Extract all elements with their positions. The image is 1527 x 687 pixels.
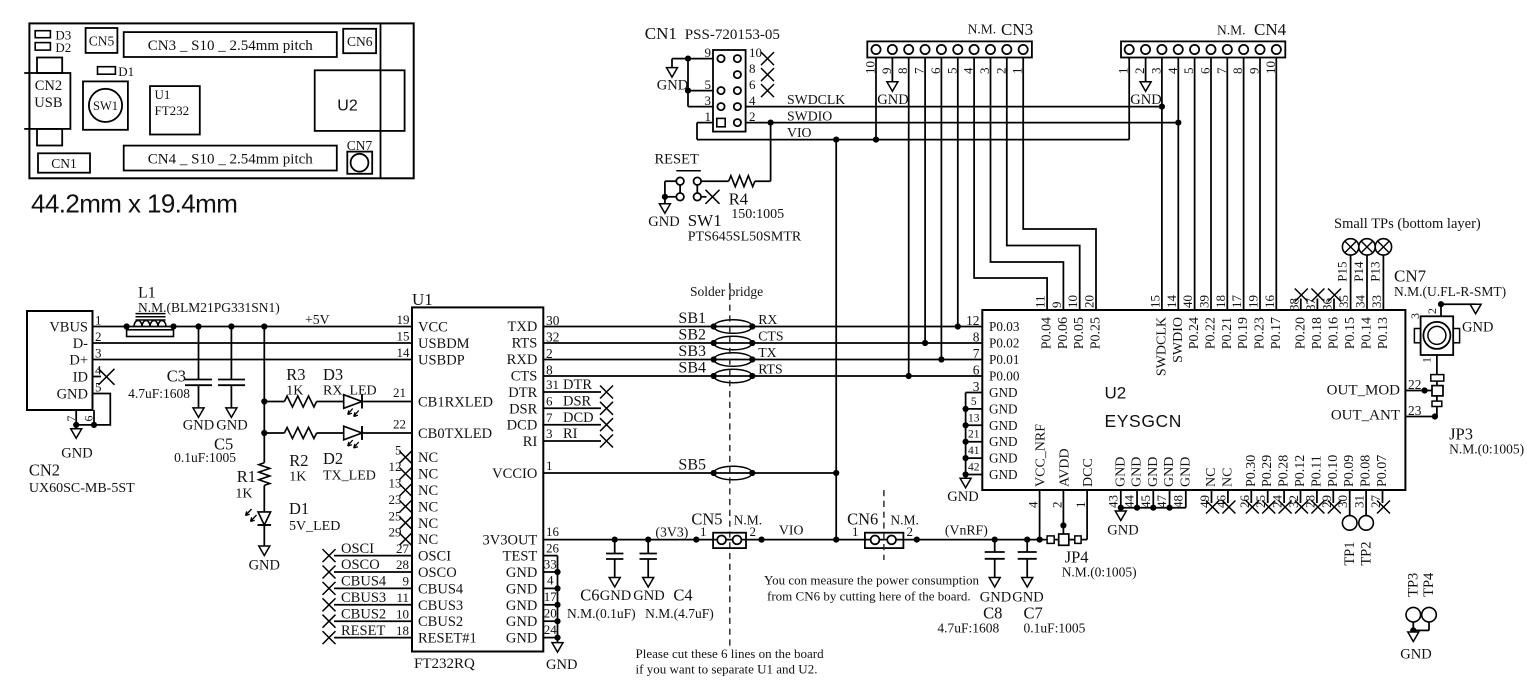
testpoint TP3 [1406, 573, 1422, 631]
svg-text:VCC_NRF: VCC_NRF [1034, 424, 1049, 487]
junction C7 [1024, 537, 1030, 543]
CN2 shield pin numbers [64, 416, 96, 422]
svg-text:Solder bridge: Solder bridge [690, 284, 763, 299]
svg-text:CB0TXLED: CB0TXLED [418, 426, 492, 442]
svg-text:from CN6 by cutting here of th: from CN6 by cutting here of the board. [767, 588, 971, 603]
wire CN3.10 to VIO [875, 58, 877, 140]
svg-text:P0.00: P0.00 [989, 369, 1020, 384]
svg-text:1: 1 [95, 313, 102, 328]
cut line through solder bridges [729, 283, 731, 650]
svg-text:SB2: SB2 [678, 327, 706, 344]
svg-text:TP3: TP3 [1406, 573, 1422, 597]
U2 top pin labels [1033, 295, 1284, 377]
svg-text:CN6: CN6 [847, 509, 878, 528]
wire CTS-RTS-P0.00 [543, 375, 982, 377]
svg-text:GND: GND [1130, 457, 1145, 487]
net label (3V3) [655, 525, 688, 541]
svg-text:3: 3 [546, 426, 553, 441]
junction CN3.8-P0.00 [906, 373, 912, 379]
wire CN3.1 to U2 pin20 [1023, 58, 1096, 311]
svg-text:D2: D2 [323, 449, 343, 468]
D2 label [323, 449, 376, 484]
svg-text:SW1: SW1 [688, 211, 722, 230]
svg-text:VIO: VIO [779, 523, 804, 538]
U1 GND bus junctions [554, 569, 560, 641]
net label TX [758, 345, 776, 360]
resistor R2 [264, 428, 343, 439]
junction TP3-TP4 [1410, 627, 1416, 633]
junction R3 branch [261, 398, 267, 404]
ground C8 [980, 590, 1011, 606]
svg-text:P0.05: P0.05 [1072, 317, 1087, 349]
svg-text:45: 45 [1138, 495, 1153, 508]
solder bridge SB4 [678, 360, 755, 383]
svg-text:16: 16 [546, 524, 560, 539]
board connector CN7 [347, 138, 373, 174]
note power consumption [764, 572, 979, 603]
resistor R4 [701, 176, 771, 187]
svg-text:NC: NC [418, 532, 438, 548]
svg-text:DCC: DCC [1081, 458, 1096, 487]
wire VCCIO to SB5 and VIO [543, 472, 836, 474]
wire CN4.5 to U2 pin40 [1194, 58, 1196, 311]
svg-text:P0.16: P0.16 [1327, 317, 1342, 349]
svg-text:20: 20 [1082, 295, 1097, 308]
svg-text:GND: GND [216, 418, 247, 434]
wire CN3.4 to U2 pin11 [974, 58, 1047, 311]
wire VIO from CN1 pin1 [697, 58, 1129, 140]
CN1 no-connect X pin 6 [761, 84, 774, 97]
svg-text:1K: 1K [235, 487, 252, 502]
svg-text:R4: R4 [729, 190, 748, 209]
module U2 body [982, 310, 1405, 490]
svg-text:24: 24 [544, 622, 558, 637]
svg-text:4: 4 [547, 573, 554, 588]
U2 GND pins left bus [966, 379, 1018, 482]
ground U1 [546, 643, 577, 673]
junction SWDIO-CN4.4 [1175, 120, 1181, 126]
solder bridge SB3 [678, 343, 755, 366]
connector CN3 refdes [968, 20, 1034, 39]
svg-text:2: 2 [95, 329, 102, 344]
svg-text:1: 1 [1073, 502, 1088, 509]
junction CN6 right [914, 537, 920, 543]
junction CN1 gnd b [685, 88, 691, 94]
svg-text:PSS-720153-05: PSS-720153-05 [685, 27, 780, 43]
C6 value label [567, 586, 636, 622]
board connector CN5 [86, 28, 118, 53]
JP3 label [1449, 425, 1524, 457]
svg-text:FT232RQ: FT232RQ [414, 656, 475, 672]
CN4 pin numbers [1116, 61, 1278, 74]
svg-text:DTR: DTR [508, 385, 537, 401]
svg-text:TP4: TP4 [1421, 572, 1437, 597]
svg-text:GND: GND [657, 78, 688, 94]
net label RTS [758, 362, 782, 377]
solder bridge heading [690, 284, 763, 299]
ground CN3 pin9 [877, 82, 908, 108]
wire SWDIO [746, 122, 1179, 124]
svg-text:29: 29 [389, 525, 402, 540]
svg-text:10: 10 [1065, 295, 1080, 308]
wire +5V branch vertical [263, 327, 265, 463]
op-amp U1 refdes [412, 290, 433, 309]
svg-text:SWDCLK: SWDCLK [1154, 317, 1169, 376]
inductor L1 symbol [134, 314, 166, 327]
svg-text:DSR: DSR [563, 394, 592, 410]
svg-text:P0.22: P0.22 [1204, 317, 1219, 349]
svg-text:N.M.(0:1005): N.M.(0:1005) [1062, 565, 1137, 580]
svg-text:GND: GND [506, 598, 537, 614]
junction CN2 shield a [73, 422, 79, 428]
wire CN4.6 to U2 pin39 [1210, 58, 1212, 311]
junction C6 [612, 537, 618, 543]
svg-text:RESET#1: RESET#1 [418, 631, 477, 647]
board dimensions label [31, 189, 237, 219]
svg-text:CN3: CN3 [1001, 20, 1033, 39]
note small TPs [1334, 216, 1481, 232]
svg-text:SB3: SB3 [678, 343, 706, 360]
svg-text:SWDCLK: SWDCLK [787, 92, 845, 107]
svg-text:CB1RXLED: CB1RXLED [418, 395, 493, 411]
svg-text:P0.08: P0.08 [1359, 455, 1374, 487]
svg-text:44: 44 [1122, 495, 1137, 509]
wire CN7 shield to ground [1441, 304, 1476, 316]
svg-text:22: 22 [393, 417, 406, 432]
wire 3V3OUT rail [543, 539, 1047, 541]
SW1 no-connect X [701, 190, 719, 204]
wire VBUS +5V rail [93, 326, 413, 328]
svg-text:N.M.: N.M. [1217, 23, 1246, 38]
svg-text:P0.13: P0.13 [1376, 317, 1391, 349]
wire RTS-CTS-P0.02 [543, 342, 982, 344]
svg-text:41: 41 [968, 445, 980, 457]
U2 pin AVDD [1049, 448, 1072, 534]
CN7 pin 1 [1419, 355, 1437, 375]
svg-text:CN5: CN5 [691, 509, 722, 528]
capacitor C8 [985, 540, 1005, 587]
CN5 refdes [691, 509, 762, 528]
svg-text:P0.09: P0.09 [1342, 455, 1357, 487]
svg-text:P15: P15 [1335, 262, 1350, 282]
connector CN1 refdes [645, 24, 780, 43]
svg-text:ID: ID [73, 370, 88, 386]
svg-text:TP1: TP1 [1342, 542, 1358, 566]
svg-text:14: 14 [397, 345, 411, 360]
svg-text:GND: GND [183, 418, 214, 434]
junction C4 [645, 537, 651, 543]
svg-text:17: 17 [1229, 295, 1244, 309]
svg-text:N.M.: N.M. [968, 22, 997, 37]
svg-text:10: 10 [396, 606, 409, 621]
svg-text:NC: NC [418, 483, 438, 499]
testpoints P15 P14 P13 [1335, 239, 1392, 350]
svg-text:21: 21 [968, 429, 980, 441]
svg-text:4.7uF:1608: 4.7uF:1608 [128, 386, 190, 401]
C4 value label [645, 586, 714, 622]
svg-text:12: 12 [966, 313, 979, 328]
U2 refdes [1105, 384, 1127, 403]
LED D1 [246, 509, 272, 546]
U1 NC pins [389, 443, 439, 549]
svg-text:N.M.(BLM21PG331SN1): N.M.(BLM21PG331SN1) [138, 300, 280, 315]
svg-text:25: 25 [1253, 495, 1268, 508]
junction SW1 gnd [662, 194, 668, 200]
CN1 no-connect X pin 8 [761, 68, 774, 81]
ground D1 [249, 546, 280, 574]
svg-text:CTS: CTS [758, 329, 783, 344]
wire SW1 left to ground [665, 181, 676, 197]
wire D- to USBDM [93, 342, 413, 344]
svg-text:OSCO: OSCO [418, 565, 457, 581]
wire CN4.7 to U2 pin18 [1226, 58, 1228, 311]
junction SWDIO-R4 [768, 120, 774, 126]
svg-text:SWDIO: SWDIO [1171, 317, 1186, 363]
svg-text:GND: GND [506, 631, 537, 647]
svg-text:U2: U2 [337, 98, 358, 115]
svg-text:GND: GND [1130, 92, 1161, 108]
svg-text:SB5: SB5 [678, 457, 706, 474]
svg-text:CN5: CN5 [89, 34, 115, 49]
svg-text:CN2: CN2 [35, 78, 62, 94]
svg-text:P0.02: P0.02 [989, 336, 1019, 351]
L1 bypass strap [127, 330, 174, 337]
CN3 pin numbers [863, 61, 1025, 74]
svg-text:C4: C4 [673, 586, 692, 605]
svg-text:GND: GND [1162, 457, 1177, 487]
board connector CN2 USB [24, 58, 70, 146]
svg-text:R3: R3 [286, 365, 305, 384]
svg-text:1: 1 [1419, 357, 1433, 363]
junction L1 left [124, 323, 130, 329]
svg-text:3: 3 [1408, 313, 1422, 319]
svg-text:23: 23 [389, 492, 402, 507]
U1 TEST and GND pins bus [506, 556, 558, 647]
svg-text:CN2: CN2 [29, 461, 60, 480]
wire CN3.8 to P0.00 [908, 58, 910, 377]
svg-text:OSCI: OSCI [341, 541, 374, 557]
net label RX [758, 312, 777, 327]
svg-text:5: 5 [971, 396, 977, 408]
wire VIO vertical to CN5-CN6 rail [835, 140, 837, 540]
junction +5V branch [261, 323, 267, 329]
svg-text:GND: GND [989, 434, 1018, 449]
junction C5 [228, 323, 234, 329]
U1 part number [414, 656, 475, 672]
svg-text:25: 25 [389, 508, 402, 523]
svg-text:GND: GND [989, 401, 1018, 416]
svg-text:11: 11 [396, 590, 409, 605]
svg-text:P0.25: P0.25 [1089, 317, 1104, 349]
junction CN1 gnd a [685, 56, 691, 62]
svg-text:31: 31 [1352, 495, 1367, 508]
svg-text:TP2: TP2 [1358, 542, 1374, 566]
CN6 refdes [847, 509, 919, 528]
ground CN2 [61, 425, 92, 462]
U1 pin 3V3OUT label [483, 524, 560, 548]
svg-text:USBDP: USBDP [418, 353, 465, 369]
svg-text:C6: C6 [580, 586, 599, 605]
svg-text:44.2mm x 19.4mm: 44.2mm x 19.4mm [31, 189, 237, 219]
U1 pin CB0TXLED label [393, 417, 492, 443]
connector CN3 body [867, 41, 1032, 57]
svg-text:DCD: DCD [563, 410, 594, 426]
svg-text:CBUS4: CBUS4 [418, 581, 464, 597]
svg-text:R1: R1 [237, 467, 256, 486]
svg-text:GND: GND [1113, 457, 1128, 487]
U2 pin VCC_NRF [1026, 424, 1049, 540]
U1 pin USBDM label [397, 329, 470, 353]
svg-text:D1: D1 [289, 499, 309, 518]
svg-text:NC: NC [418, 450, 438, 466]
svg-text:RXD: RXD [507, 352, 538, 368]
svg-text:3V3OUT: 3V3OUT [483, 532, 538, 548]
svg-text:CBUS2: CBUS2 [341, 606, 386, 622]
CN7 pin numbers 3 2 [1408, 308, 1439, 319]
svg-text:OSCO: OSCO [341, 557, 380, 573]
wire CN4.3 to U2 SWDCLK [1161, 58, 1163, 311]
junction CN2 shield b [91, 422, 97, 428]
ground CN1 [657, 59, 688, 94]
wire CN4.4 to U2 SWDIO [1177, 58, 1179, 311]
svg-text:P0.03: P0.03 [989, 319, 1020, 334]
svg-text:GND: GND [989, 467, 1018, 482]
junction VIO-CN3.10 [873, 137, 879, 143]
wire CN4.10 to U2 pin16 [1275, 58, 1277, 311]
svg-text:Small TPs (bottom layer): Small TPs (bottom layer) [1334, 216, 1481, 232]
junction C8 [992, 537, 998, 543]
board module U2 [315, 70, 405, 131]
junction R2 branch [261, 430, 267, 436]
svg-text:35: 35 [1336, 295, 1351, 308]
svg-text:N.M.: N.M. [890, 512, 919, 527]
svg-text:P0.28: P0.28 [1277, 455, 1292, 487]
ground SW1 [648, 197, 679, 230]
svg-text:14: 14 [1164, 295, 1179, 309]
connector CN4 refdes [1217, 20, 1287, 39]
U2 left GND junctions [963, 406, 969, 478]
svg-text:20: 20 [544, 606, 557, 621]
svg-text:48: 48 [1170, 495, 1185, 508]
svg-text:42: 42 [968, 462, 980, 474]
svg-text:6: 6 [973, 363, 980, 378]
capacitor C3 [185, 327, 212, 418]
svg-text:0.1uF:1005: 0.1uF:1005 [1024, 621, 1086, 636]
svg-text:GND: GND [506, 614, 537, 630]
svg-text:16: 16 [1262, 295, 1277, 309]
LED D3 [344, 395, 412, 417]
svg-text:You con measure the power cons: You con measure the power consumption [764, 572, 979, 587]
testpoint TP1 [1342, 490, 1358, 566]
svg-text:D+: D+ [69, 353, 88, 369]
U1 pin VCCIO label [492, 458, 552, 482]
wire CN3.2 to U2 pin10 [1007, 58, 1080, 311]
svg-text:CN3 _ S10 _ 2.54mm pitch: CN3 _ S10 _ 2.54mm pitch [148, 38, 314, 54]
wire CN3.3 to U2 pin9 [991, 58, 1064, 311]
svg-text:P0.20: P0.20 [1293, 317, 1308, 349]
svg-text:1: 1 [546, 458, 553, 473]
svg-text:GND: GND [546, 657, 577, 673]
board connector CN6 [343, 29, 376, 53]
svg-text:49: 49 [1197, 495, 1212, 508]
CN2 refdes [29, 461, 135, 497]
CN2 ID no-connect X [93, 369, 115, 385]
wire CN3.5 to P0.03 [957, 58, 959, 327]
board switch SW1 [83, 81, 128, 129]
svg-text:2: 2 [1425, 308, 1439, 314]
svg-text:VCCIO: VCCIO [492, 466, 537, 482]
wire CN3.7 to P0.02 [924, 58, 926, 344]
D3 label [323, 365, 377, 399]
U1 UART pins TXD RTS RXD CTS [507, 313, 560, 385]
svg-text:GND: GND [249, 558, 280, 574]
svg-text:VCC: VCC [418, 320, 448, 336]
svg-text:28: 28 [396, 557, 409, 572]
U1 pin TEST label [503, 541, 560, 565]
svg-text:RX: RX [758, 312, 777, 327]
svg-text:GND: GND [1107, 523, 1138, 539]
svg-text:NC: NC [418, 516, 438, 532]
board connector CN4 [124, 146, 337, 171]
LED D2 [344, 426, 412, 448]
svg-text:4: 4 [1026, 501, 1041, 508]
svg-text:GND: GND [947, 489, 978, 505]
svg-text:NC: NC [418, 499, 438, 515]
svg-text:DCD: DCD [507, 418, 538, 434]
svg-text:5V_LED: 5V_LED [289, 519, 340, 534]
R2 value label [289, 451, 308, 485]
ground U2 left [947, 475, 978, 506]
note cut lines [636, 646, 825, 677]
svg-text:CN4 _ S10 _ 2.54mm pitch: CN4 _ S10 _ 2.54mm pitch [148, 151, 314, 167]
R1 value label [235, 467, 256, 502]
ground U2 bottom [1107, 508, 1138, 539]
svg-text:if you want to separate U1 and: if you want to separate U1 and U2. [636, 661, 818, 676]
svg-text:C3: C3 [167, 367, 186, 386]
wire RXD-TX-P0.01 [543, 359, 982, 361]
wire CN3.9 to ground [891, 58, 893, 82]
svg-text:26: 26 [1237, 495, 1252, 509]
net label VIO mid [779, 523, 804, 538]
svg-text:CN6: CN6 [347, 34, 373, 49]
connector CN4 body [1121, 41, 1285, 57]
svg-text:30: 30 [1335, 495, 1350, 508]
net label VIO [787, 125, 812, 140]
svg-text:NC: NC [1204, 468, 1219, 487]
U1 modem pins DTR DSR DCD RI with no-connect X [507, 377, 613, 450]
ground CN7 [1462, 304, 1493, 335]
junction VCC_NRF [1037, 537, 1043, 543]
net label (VnRF) [945, 523, 988, 539]
net label SWDCLK [787, 92, 845, 107]
ground CN4 pin2 [1130, 82, 1161, 108]
svg-text:R2: R2 [289, 451, 308, 470]
svg-text:26: 26 [546, 541, 560, 556]
wire CN3.6 to P0.01 [940, 58, 942, 360]
svg-text:0.1uF:1005: 0.1uF:1005 [174, 450, 236, 465]
svg-text:18: 18 [396, 623, 409, 638]
jumper JP3 [1431, 375, 1444, 417]
svg-text:N.M.(0.1uF): N.M.(0.1uF) [567, 606, 636, 621]
ground C7 [1012, 590, 1043, 606]
svg-text:USBDM: USBDM [418, 336, 470, 352]
C3 value label [128, 367, 190, 402]
svg-text:10: 10 [749, 45, 762, 60]
wire CN4.8 to U2 pin17 [1243, 58, 1245, 311]
svg-text:P0.29: P0.29 [1260, 455, 1275, 487]
svg-text:UX60SC-MB-5ST: UX60SC-MB-5ST [29, 481, 135, 496]
junction VCCIO-VIO [833, 470, 839, 476]
